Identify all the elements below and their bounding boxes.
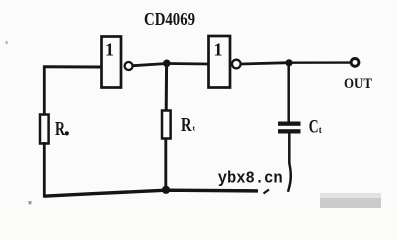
scan artifact: faint speck left edge [6,41,8,44]
wire: left vertical (bottom part, Ra to bottom rail) [43,142,46,197]
wire: left vertical (top part, node to Ra) [43,66,46,116]
svg-text:R: R [55,118,65,140]
inverter U1B (box with bubble) [209,36,241,88]
wire: node A to U1B input [167,62,209,65]
scan mark: small diagonal tick on bottom rail [264,190,270,194]
output terminal (open circle) [351,59,359,67]
svg-text:C: C [309,117,319,138]
wire: Ct bottom plate down to bottom rail (slight curve) [288,133,291,191]
label Ct [309,117,322,138]
wire: U1B output to node B [241,63,289,64]
svg-text:R: R [181,114,192,136]
wire: input horizontal segment to U1A [43,65,101,68]
inverter U1A (box with bubble) [102,37,133,88]
scan artifact: gray block bottom right [320,193,381,208]
scan artifact: small dash bottom left [29,201,32,204]
svg-text:CD4069: CD4069 [144,9,195,29]
wire: Rt to bottom node [164,138,167,190]
label Ra [55,118,69,140]
wire: node A down to Rt [165,64,168,112]
bottom node junction dot [162,186,170,194]
node B junction dot [285,59,292,66]
svg-text:OUT: OUT [344,76,372,92]
capacitor Ct (two plates) [278,122,301,134]
svg-text:t: t [319,125,322,135]
wire: node B down to Ct top plate [287,63,290,122]
wire: U1A output to node A [133,64,167,66]
svg-text:ybx8.cn: ybx8.cn [218,168,283,187]
svg-text:1: 1 [105,39,114,59]
node A junction dot [163,60,171,68]
svg-text:1: 1 [214,39,223,59]
wire: bottom rail (left corner to right, slightly sloped) [44,190,259,196]
resistor Rt [162,111,171,139]
resistor Ra [40,115,49,144]
label Rt [181,114,196,136]
wire: node B to output terminal [289,61,350,64]
